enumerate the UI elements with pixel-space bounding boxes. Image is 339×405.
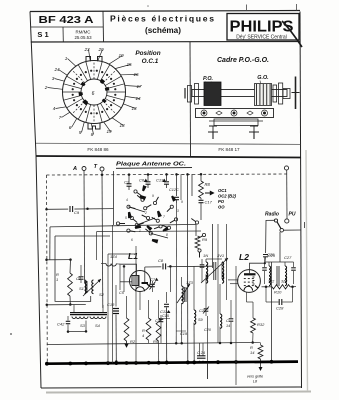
wire C9 line [47,208,114,211]
svg-text:1Z4: 1Z4 [110,254,118,259]
border frame left [30,12,41,389]
C25 side capacitor [264,257,266,267]
foot right [249,126,259,132]
wire from arm right [284,229,302,231]
L2 anode [244,273,256,275]
svg-text:14: 14 [135,96,141,101]
wire PU vertical [286,170,288,219]
svg-text:C15: C15 [162,314,170,318]
wire pair below C12C [180,174,182,200]
svg-text:23: 23 [83,47,90,52]
wire radio feed [266,220,275,253]
wire x207 below [207,316,209,379]
svg-text:3Z6: 3Z6 [281,280,287,284]
svg-text:FK 848 86: FK 848 86 [87,147,109,152]
svg-text:5: 5 [79,130,82,135]
svg-text:Plaque Antenne OC.: Plaque Antenne OC. [116,162,186,168]
wafer key tab bottom [88,123,100,129]
svg-text:7: 7 [163,215,165,219]
wafer key tab top left [86,57,91,63]
oscillator box wire [55,236,91,301]
svg-text:R8: R8 [205,182,211,187]
svg-text:FK 848 17: FK 848 17 [218,147,240,152]
wire from A down [83,171,86,284]
svg-text:C8: C8 [158,258,164,263]
3V1 tuning arrow [201,258,228,283]
wire right cluster vertical [212,224,214,268]
terminal top right [284,166,288,170]
switch arm [277,222,281,229]
wafer pin numbers [44,47,142,137]
speck top [147,5,149,7]
svg-text:6: 6 [69,125,72,130]
svg-text:C27: C27 [284,255,292,260]
svg-text:20: 20 [97,47,104,52]
svg-text:C 24: C 24 [197,351,205,355]
wire x170 down [169,266,171,292]
svg-text:R10: R10 [274,290,282,295]
L2 grids [244,277,255,286]
svg-text:P.O.: P.O. [203,76,214,82]
svg-text:O.C.1: O.C.1 [142,58,159,65]
wire y331 [68,330,86,332]
svg-text:PU: PU [289,212,296,218]
wire tube bottom to bus [246,292,248,302]
svg-text:9: 9 [152,194,154,198]
svg-text:C7: C7 [150,277,156,282]
switch wafer inner circle [81,79,107,105]
main supply bus [47,362,298,364]
svg-text:3: 3 [177,209,179,213]
svg-text:9: 9 [181,200,183,204]
svg-text:5: 5 [125,216,127,220]
svg-text:PHILIPS: PHILIPS [230,19,294,36]
svg-text:C17: C17 [205,200,213,205]
oscillator coils S1 S2 [85,280,87,294]
svg-text:25.05.53: 25.05.53 [74,35,92,40]
header row divider [31,26,104,28]
svg-text:C9: C9 [74,210,80,215]
wire x112 [112,225,114,363]
wafer rotor contacts [79,79,110,106]
wafer contact rivets [72,70,117,115]
triode L1 envelope [130,271,151,292]
PHILIPS logo box [227,14,299,41]
svg-text:Radio: Radio [265,212,279,218]
svg-text:A: A [72,166,77,172]
output IF top wires [268,262,270,266]
svg-text:3: 3 [52,76,55,81]
base plate [214,119,258,126]
svg-text:RM/MC: RM/MC [76,30,91,35]
svg-text:14: 14 [226,324,230,328]
svg-text:C28: C28 [276,306,284,311]
L1 anode wire [144,267,146,282]
svg-text:vers grille: vers grille [247,375,263,379]
svg-text:6: 6 [131,238,133,242]
svg-text:L2: L2 [239,252,249,262]
1N side capacitor [201,259,203,264]
svg-text:(schéma): (schéma) [145,26,181,35]
svg-text:C20: C20 [204,328,212,332]
rod left flange [188,86,192,103]
svg-text:4: 4 [126,198,128,202]
svg-text:L1: L1 [128,251,138,261]
svg-text:S1: S1 [79,286,84,291]
band switch contacts [134,190,137,193]
L1 cathode [136,287,145,292]
rod right flanges [273,85,277,102]
wire y343 long [47,343,253,345]
plate antenna box wire [113,171,115,225]
L2 grid leads [228,279,239,281]
coil S10 [219,284,221,314]
svg-text:PO: PO [218,199,225,204]
card shadow right [306,150,308,391]
svg-text:2: 2 [144,211,147,215]
svg-text:C42: C42 [57,322,65,327]
svg-text:OC2 (B2): OC2 (B2) [218,194,237,199]
border frame bottom [41,387,302,388]
right support plate [295,77,297,110]
svg-text:C: C [226,319,229,323]
C27 side capacitor [293,262,295,267]
foot left [208,126,218,132]
wire x226 [226,224,228,300]
header box [30,11,300,12]
wire from T down [101,171,104,308]
wire switch feed upper [50,224,196,227]
switch PU contact [285,219,289,223]
svg-text:C25: C25 [267,252,275,257]
L1 grid lead left [120,281,132,283]
wire C8 line [145,265,213,268]
svg-text:GO: GO [218,205,225,210]
svg-text:2: 2 [44,85,48,90]
svg-text:S2: S2 [99,292,105,297]
L2 cathode [244,286,253,290]
svg-text:C19: C19 [180,332,188,336]
wire y259 [47,259,71,261]
svg-text:10: 10 [118,53,124,58]
wire y254 [108,253,136,255]
wire switch feed lower [97,230,202,233]
svg-text:Cadre P.O.-G.O.: Cadre P.O.-G.O. [217,57,269,64]
pentode L2 envelope [238,270,261,293]
svg-text:1: 1 [56,277,58,282]
bracket slots [216,111,222,115]
wire x187 down [187,219,189,362]
switch wafer S1 outer disc [63,61,126,124]
wire dashed top antenna line [47,174,288,175]
svg-text:13: 13 [131,106,137,111]
margin speck left [10,333,12,335]
panel divider vertical [189,42,192,156]
wire dashed screen border left [46,175,49,364]
svg-text:8: 8 [91,132,94,137]
pen stroke over logo [282,21,302,47]
svg-text:1: 1 [65,56,68,61]
registration tick marks [246,5,248,12]
switch rotor wedges [139,194,146,200]
arrow vers grille L8 [260,359,262,368]
caption line [36,143,301,144]
label OC selection [205,191,214,194]
svg-text:S3: S3 [80,323,86,328]
svg-text:24: 24 [53,67,60,72]
mounting bracket [196,109,274,118]
wire y304 [47,304,86,306]
svg-text:1N: 1N [203,253,208,258]
wafer contact spokes [63,62,126,123]
svg-text:C12C: C12C [169,188,179,192]
svg-text:18: 18 [119,123,125,128]
svg-text:G.O.: G.O. [257,75,269,81]
switch contact lower left [195,221,198,224]
border frame right [300,12,302,389]
svg-text:7: 7 [59,115,62,120]
wire below bus x236 [235,266,237,385]
svg-text:19: 19 [106,129,112,134]
wire x108 [107,254,109,363]
svg-text:Pièces électriques: Pièces électriques [110,14,214,24]
transformer S3 S4 [70,312,107,314]
svg-text:16: 16 [133,72,139,77]
thick separator line [36,156,301,158]
ferrite rod [192,90,287,97]
svg-text:R32: R32 [257,322,265,327]
svg-text:R9: R9 [202,237,208,242]
switch radio contact [274,219,277,222]
card shadow bottom [46,392,311,393]
svg-text:Déy' SERVICE Central: Déy' SERVICE Central [236,35,287,41]
svg-text:OC1: OC1 [218,188,227,193]
wire below bus x207 [207,363,209,380]
svg-text:6: 6 [92,91,95,97]
svg-text:T: T [94,164,98,170]
svg-text:Position: Position [135,50,160,57]
svg-text:S 1: S 1 [37,30,48,39]
wire x271 long [271,262,273,361]
wafer key tab top right [98,57,103,63]
coil PO (dark) [204,82,221,106]
wire 1N top [205,259,207,262]
svg-text:8: 8 [166,233,168,237]
svg-text:15: 15 [126,62,132,67]
wire x136 [135,246,137,363]
svg-text:17: 17 [136,84,142,89]
bus junctions [45,362,49,366]
wire x218 [217,224,219,343]
wire x176 [175,203,177,343]
coil GO (striped) [255,84,272,106]
svg-text:S4: S4 [95,323,101,328]
L1 grid [132,276,139,286]
svg-text:4: 4 [53,106,56,111]
svg-text:14: 14 [250,350,255,355]
margin tick right [304,222,306,228]
svg-text:BF 423 A: BF 423 A [39,15,94,26]
